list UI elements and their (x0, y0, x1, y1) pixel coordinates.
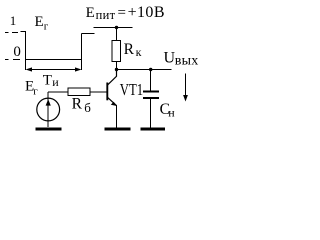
wire pulse falling edge (left tick of Ти) (25, 32, 27, 71)
ground (emitter) (105, 127, 131, 130)
svg-text:E: E (86, 5, 95, 21)
svg-text:E: E (35, 14, 44, 30)
svg-text:=: = (118, 5, 126, 21)
capacitor Cн (143, 90, 159, 99)
svg-text:R: R (72, 95, 83, 112)
junction dot capacitor tap (149, 68, 152, 71)
wire capacitor bottom (150, 99, 152, 128)
svg-text:R: R (124, 41, 135, 58)
wire emitter down (116, 105, 118, 128)
svg-text:+10В: +10В (128, 4, 165, 21)
svg-text:к: к (136, 45, 142, 59)
svg-text:г: г (33, 86, 38, 98)
current source Eг circle (37, 98, 60, 121)
svg-text:г: г (44, 21, 49, 33)
svg-text:пит: пит (96, 8, 116, 22)
wire Rб to base (91, 91, 107, 93)
svg-text:б: б (84, 100, 91, 115)
resistor Rк (112, 41, 121, 62)
dashed level-1 line (5, 32, 18, 34)
wire pulse high-left segment (21, 31, 27, 33)
wire rail to Rк (116, 28, 118, 41)
svg-text:U: U (164, 50, 176, 67)
wire Rк to collector node (116, 62, 118, 70)
wire pulse low segment (26, 59, 83, 61)
svg-text:и: и (52, 75, 59, 89)
svg-text:н: н (168, 106, 175, 120)
junction dot collector node (115, 68, 118, 71)
transistor VT1 (NPN) (107, 70, 117, 107)
arrow Uвых (output direction, down) (183, 74, 188, 102)
wire base node to Rб (48, 91, 67, 93)
dimension arrow Tи (pulse width, double headed) (26, 67, 82, 71)
label Eпит = +10В (power supply) (86, 4, 165, 22)
wire capacitor top (150, 70, 152, 91)
arrow inside source (pointing up) (46, 99, 51, 105)
svg-text:0: 0 (13, 44, 21, 60)
svg-text:Т: Т (43, 72, 52, 88)
svg-text:вых: вых (175, 53, 199, 68)
wire pulse rising edge (right tick of Ти) (81, 34, 83, 71)
junction dot on power rail (115, 26, 118, 29)
svg-text:1: 1 (10, 13, 16, 28)
dashed level-0 line (5, 59, 20, 61)
svg-text:VT1: VT1 (120, 82, 143, 100)
ground (capacitor) (141, 127, 166, 130)
wire pulse high-right segment (82, 33, 95, 35)
wire output node (collector to output) (117, 69, 172, 71)
resistor Rб (68, 88, 90, 96)
ground (source) (36, 127, 62, 130)
wire source top to base wire (47, 92, 49, 127)
wire power rail (94, 27, 133, 29)
